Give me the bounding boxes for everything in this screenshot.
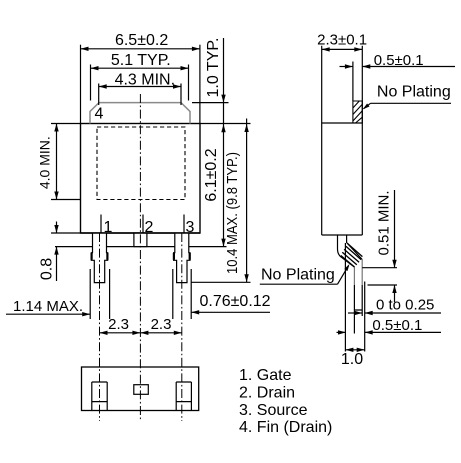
side view top no-plating hatch [353, 101, 362, 123]
side view mold right edge [361, 46, 363, 235]
side view foot top extension to right [362, 267, 397, 269]
lead tip extension line to right [192, 281, 251, 283]
bottom view outline [82, 367, 199, 411]
pin2 tick [142, 215, 144, 234]
bottom view pin3 pad [176, 382, 191, 411]
side view 0.5 extension line [352, 62, 354, 102]
dimension 4.3 MIN line [99, 86, 181, 88]
dimension 0.5+-0.1 bottom shelf [365, 331, 441, 333]
svg-text:0.51 MIN.: 0.51 MIN. [375, 190, 392, 255]
no plating left leader [338, 266, 349, 285]
pin1 lead width extension lines [89, 269, 91, 319]
side view lead foot lower section [354, 285, 362, 310]
svg-text:10.4 MAX. (9.8 TYP.): 10.4 MAX. (9.8 TYP.) [224, 152, 241, 274]
side view lead foot gray section [354, 260, 362, 286]
svg-text:0 to 0.25: 0 to 0.25 [376, 297, 434, 314]
pin1 lead outline [91, 233, 107, 283]
side view 0.51 MIN dim line [394, 190, 396, 302]
pin1 tick [100, 215, 102, 234]
bottom view center index notch [134, 385, 149, 395]
svg-text:5.1 TYP.: 5.1 TYP. [111, 52, 171, 69]
dimension 0.76 shelf line [191, 311, 270, 313]
side view lead tip right extension line [364, 282, 366, 352]
die pad dashed rectangle [97, 127, 185, 200]
body bottom edge over leads [81, 232, 201, 234]
front view body bottom extension to left [51, 232, 81, 234]
no plating top label underline [371, 102, 452, 104]
svg-text:No Plating: No Plating [377, 83, 451, 100]
pin1 lead centerline [99, 233, 101, 421]
svg-text:0.5±0.1: 0.5±0.1 [374, 52, 424, 69]
svg-text:1: 1 [104, 219, 113, 236]
arrowheads [54, 47, 396, 352]
dimension 0 to 0.25 shelf [365, 312, 441, 314]
svg-text:1.0 TYP.: 1.0 TYP. [205, 38, 222, 98]
svg-text:1.0: 1.0 [341, 351, 363, 368]
pin3 lead width extension lines [172, 269, 174, 319]
side view seating extension to right [368, 284, 398, 286]
dimension 1.0 bottom line [345, 349, 364, 351]
svg-text:3: 3 [186, 219, 195, 236]
svg-text:0.5±0.1: 0.5±0.1 [372, 317, 422, 334]
side view foot extension lines below tip [353, 310, 355, 334]
pin3 lead centerline [181, 233, 183, 421]
dimension 2.3 pitch line [100, 332, 182, 334]
dimension 10.4 MAX vertical line [246, 119, 248, 283]
pin3 lead outline [174, 233, 190, 283]
svg-text:2: 2 [145, 219, 154, 236]
no plating left label underline [260, 283, 338, 285]
main vertical centerline [139, 94, 141, 421]
side view lead right profile [347, 235, 363, 260]
dimension 4.0 MIN extension lines [51, 123, 81, 125]
svg-text:4.0 MIN.: 4.0 MIN. [37, 136, 53, 189]
front view body lower parting line [55, 246, 227, 248]
dimension 1.14 MAX shelf line [6, 313, 90, 315]
no plating top leader [364, 103, 371, 109]
side view mold bottom [322, 234, 363, 236]
svg-text:2.3: 2.3 [151, 316, 172, 333]
side view mold left edge [321, 46, 323, 235]
bottom view pin1 pad [92, 382, 107, 411]
side view bend hatch stripes [341, 244, 363, 267]
svg-text:No Plating: No Plating [261, 267, 335, 284]
svg-text:2. Drain: 2. Drain [239, 384, 295, 401]
side view 0.5 dim arrow tail left [340, 66, 353, 68]
svg-text:4. Fin (Drain): 4. Fin (Drain) [239, 419, 332, 436]
pin2 center lead stub [134, 233, 147, 247]
svg-text:4.3 MIN.: 4.3 MIN. [115, 71, 175, 88]
svg-text:1.14 MAX.: 1.14 MAX. [13, 298, 83, 315]
side view lead left profile [338, 235, 355, 267]
dimension 0.8 arrow tails [56, 222, 58, 234]
dimension 6.5+-0.2 extension lines [80, 45, 82, 124]
dimension 0 to 0.25 left arrow tail [348, 312, 362, 314]
pin3 lead dambar thick edges [173, 253, 175, 260]
side view 0.5 shelf line [362, 66, 455, 68]
dimension 0.5+-0.1 bottom left arrow tail [337, 331, 347, 333]
svg-text:0.8: 0.8 [39, 258, 56, 280]
svg-text:2.3: 2.3 [108, 316, 129, 333]
side view 1.0 left extension line [344, 243, 346, 352]
svg-text:1. Gate: 1. Gate [239, 367, 292, 384]
body top extension line to right [200, 123, 251, 125]
dimension 5.1 TYP extension lines [90, 65, 92, 101]
tab top extension line to right [192, 102, 229, 104]
dimension 5.1 TYP line [91, 67, 189, 69]
side view dimension 2.3 line (top edge) [322, 48, 363, 50]
svg-text:3. Source: 3. Source [239, 402, 308, 419]
svg-text:0.76±0.12: 0.76±0.12 [200, 293, 271, 310]
dimension 4.3 MIN extension lines [98, 84, 100, 106]
front view package body [81, 124, 201, 234]
svg-text:4: 4 [95, 106, 104, 123]
svg-text:6.1±0.2: 6.1±0.2 [203, 148, 220, 201]
dimension 1.0 TYP / 6.1 vertical line [223, 38, 225, 247]
fin tab (gray outline) [90, 103, 190, 124]
svg-text:6.5±0.2: 6.5±0.2 [115, 32, 168, 49]
dimension 4.0 MIN line [56, 124, 58, 200]
pin1 lead dambar thick edges [90, 253, 92, 260]
side view tab/body boundary [322, 122, 363, 124]
svg-text:2.3±0.1: 2.3±0.1 [317, 32, 367, 49]
dimension 6.5+-0.2 line [81, 48, 200, 50]
pin3 tick [183, 215, 185, 234]
